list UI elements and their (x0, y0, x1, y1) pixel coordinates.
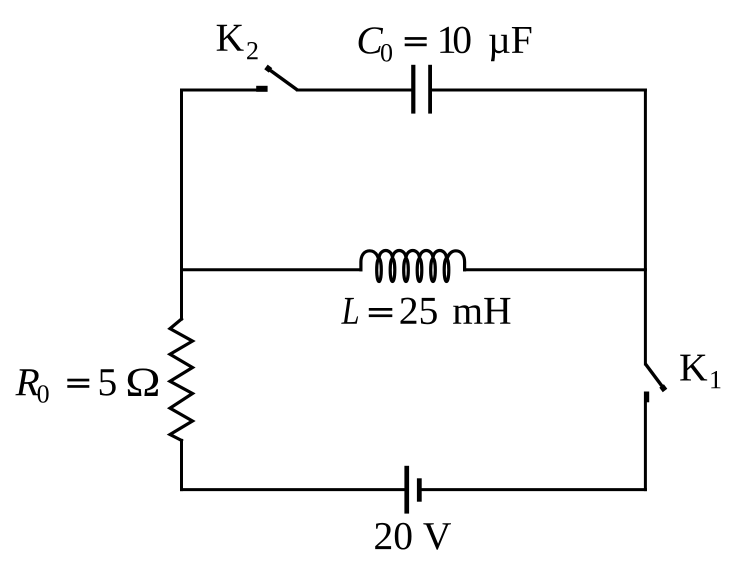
label R0 unit ohm (128, 369, 158, 397)
inductor L exit arc (447, 251, 464, 270)
resistor R0 zigzag (170, 319, 193, 440)
inductor L loop 2 (390, 259, 395, 282)
inductor L loop 5 (431, 259, 436, 282)
capacitor C0 left plate (411, 65, 415, 114)
inductor L loop 4 (417, 259, 422, 282)
inductor L loop 1 (377, 259, 382, 282)
wire middle left segment (182, 268, 362, 271)
label R0 equals sign (67, 379, 89, 382)
wire right vertical upper (644, 90, 647, 364)
battery long plate (404, 466, 409, 514)
label R0 value 5 (100, 369, 116, 395)
switch K2 contact nub (256, 86, 267, 92)
label battery voltage 20 V (375, 523, 451, 550)
switch K2 blade end dot (264, 65, 272, 73)
switch K1 blade (645, 364, 662, 386)
wire top left segment (182, 89, 258, 92)
label L unit mH (453, 298, 510, 324)
label C0 value 10 (440, 27, 470, 54)
wire top middle segment (297, 89, 412, 92)
label R0 subscript 0 (38, 385, 49, 403)
label K2 letter K (217, 25, 244, 51)
inductor L loop 3 (404, 259, 409, 282)
label L equals sign (369, 308, 393, 311)
switch K1 contact nub (644, 392, 649, 403)
inductor L loop 6 (444, 259, 449, 282)
battery short plate (417, 478, 422, 501)
switch K1 blade end dot (659, 384, 667, 392)
label K1 subscript 1 (711, 371, 720, 388)
label C0 subscript 0 (381, 44, 392, 62)
inductor L hump 2-3 (393, 251, 407, 259)
label L value 25 (401, 298, 437, 325)
wire bottom left segment (182, 488, 405, 491)
inductor L entry arc (361, 251, 378, 270)
inductor L hump 4-5 (420, 251, 434, 259)
wire left vertical upper (180, 90, 183, 319)
label C0 unit microfarad (489, 27, 531, 61)
label C0 italic C (359, 27, 384, 54)
switch K2 blade (269, 70, 297, 90)
wire right vertical lower (644, 393, 647, 490)
label K1 letter K (680, 355, 707, 381)
inductor L hump 3-4 (406, 251, 420, 259)
capacitor C0 right plate (428, 65, 432, 114)
wire middle right segment (465, 268, 646, 271)
wire left vertical lower (180, 440, 183, 489)
label R0 italic R (15, 369, 39, 395)
wire bottom right segment (422, 488, 646, 491)
label K2 subscript 2 (247, 42, 258, 59)
label L italic L (341, 298, 358, 324)
wire top right segment (432, 89, 645, 92)
label C0 equals sign (405, 37, 427, 40)
inductor L hump 1-2 (379, 251, 393, 259)
inductor L hump 5-6 (433, 251, 447, 259)
